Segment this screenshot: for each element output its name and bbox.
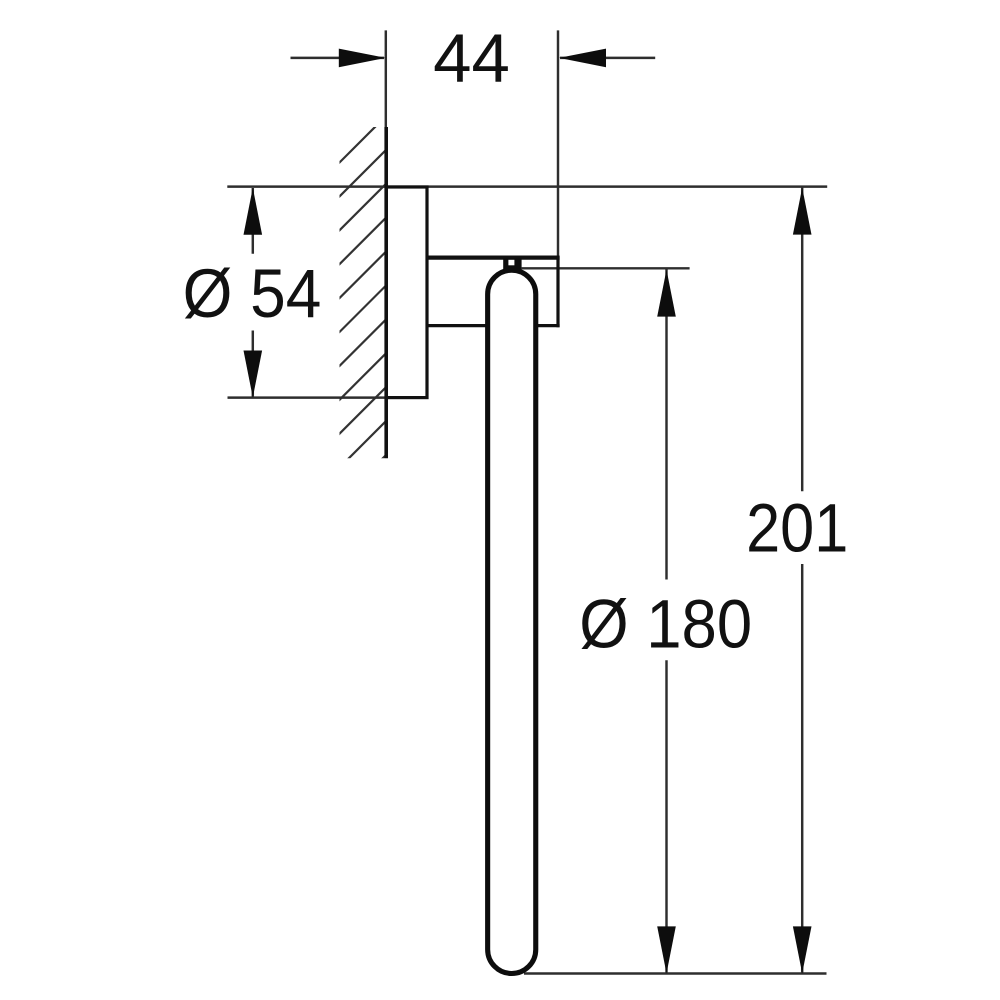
svg-text:Ø 180: Ø 180 [579,586,752,663]
svg-text:Ø 54: Ø 54 [183,256,322,333]
svg-text:201: 201 [746,489,848,566]
svg-text:44: 44 [433,20,510,97]
